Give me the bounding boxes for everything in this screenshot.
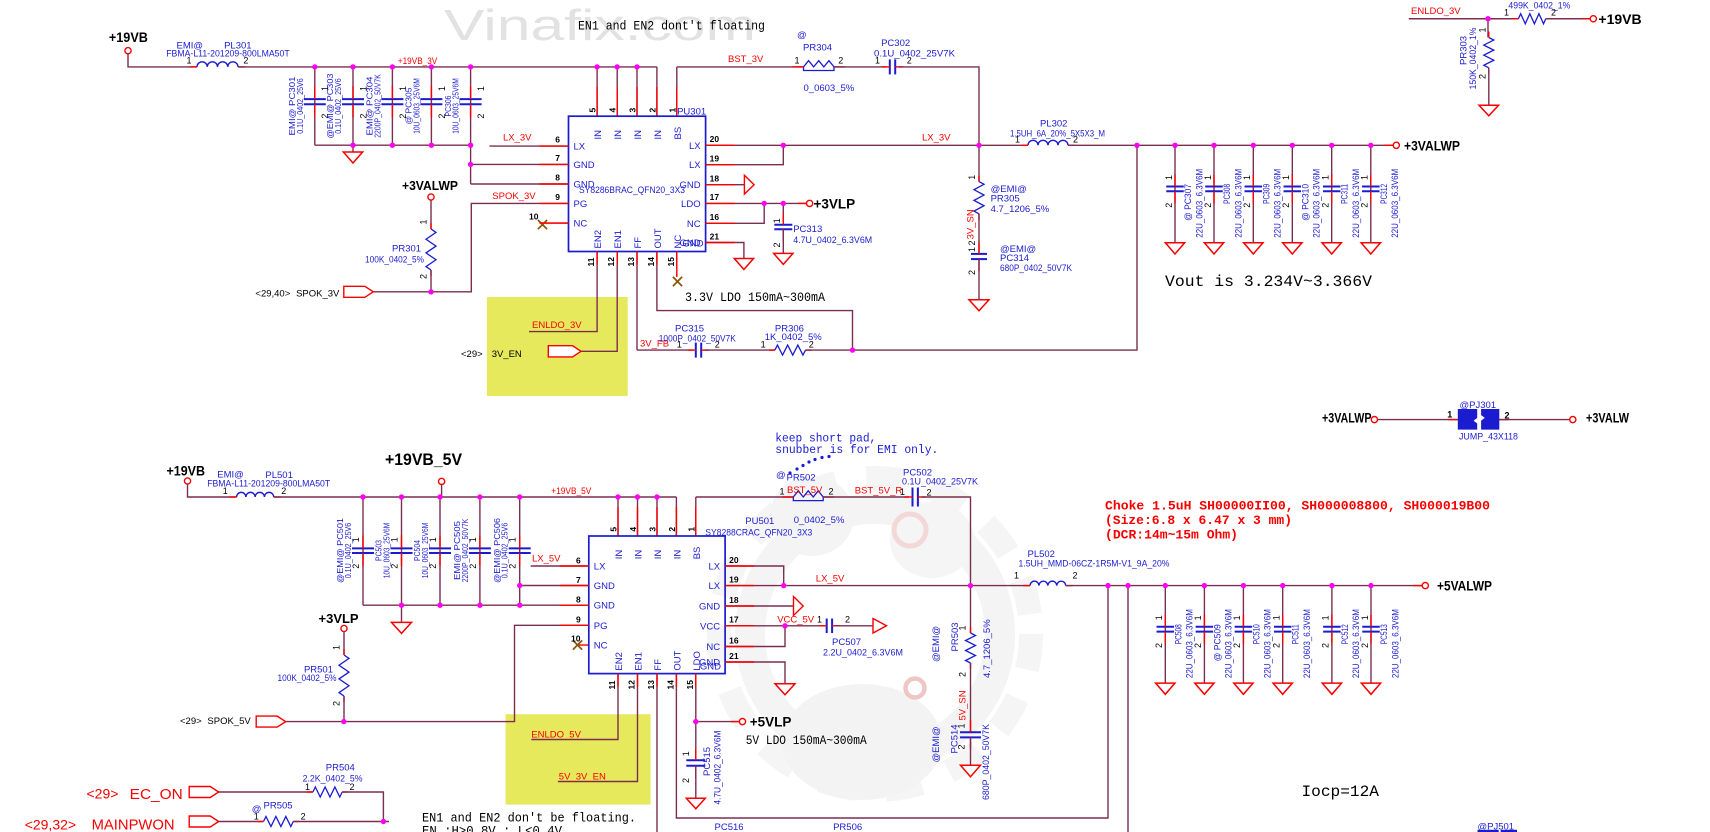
svg-text:@ PC307: @ PC307 xyxy=(1183,184,1194,221)
svg-text:0.1U_0402_25V7K: 0.1U_0402_25V7K xyxy=(874,48,956,59)
svg-text:+3VLP: +3VLP xyxy=(814,197,856,212)
svg-text:EN1 and EN2 dont't floating: EN1 and EN2 dont't floating xyxy=(578,20,765,34)
svg-text:17: 17 xyxy=(729,615,739,625)
svg-text:2: 2 xyxy=(1242,203,1252,208)
svg-text:0.1U_0402_25V6: 0.1U_0402_25V6 xyxy=(500,522,510,578)
svg-text:(DCR:14m~15m Ohm): (DCR:14m~15m Ohm) xyxy=(1105,528,1238,543)
svg-text:21: 21 xyxy=(710,231,720,241)
svg-text:3V_EN: 3V_EN xyxy=(492,349,522,360)
svg-text:SY8288CRAC_QFN20_3X3: SY8288CRAC_QFN20_3X3 xyxy=(705,527,812,538)
svg-text:2: 2 xyxy=(476,114,486,119)
svg-text:2: 2 xyxy=(1164,203,1174,208)
svg-text:LX: LX xyxy=(689,160,701,171)
svg-text:BS: BS xyxy=(692,547,703,560)
svg-text:18: 18 xyxy=(729,595,739,605)
svg-text:4.7_1206_5%: 4.7_1206_5% xyxy=(982,619,993,678)
svg-text:1: 1 xyxy=(1193,615,1203,620)
svg-text:1: 1 xyxy=(389,537,399,542)
svg-text:2: 2 xyxy=(301,811,306,821)
svg-text:1: 1 xyxy=(332,645,342,650)
svg-text:PC512: PC512 xyxy=(1340,624,1351,644)
svg-text:2: 2 xyxy=(957,672,967,677)
svg-text:20: 20 xyxy=(729,555,739,565)
svg-text:100K_0402_5%: 100K_0402_5% xyxy=(278,673,337,684)
svg-text:1: 1 xyxy=(875,55,880,65)
svg-text:PG: PG xyxy=(574,199,588,210)
svg-text:1: 1 xyxy=(1321,615,1331,620)
svg-text:2: 2 xyxy=(967,270,977,275)
svg-text:2: 2 xyxy=(681,778,691,783)
svg-text:13: 13 xyxy=(646,680,656,690)
svg-text:1: 1 xyxy=(1015,135,1020,145)
svg-text:VCC_5V: VCC_5V xyxy=(777,615,815,626)
svg-text:IN: IN xyxy=(653,550,664,560)
svg-text:PC312: PC312 xyxy=(1379,184,1390,204)
svg-text:2: 2 xyxy=(468,564,478,569)
svg-text:19: 19 xyxy=(710,154,720,164)
svg-text:EN2: EN2 xyxy=(593,230,604,248)
svg-text:1: 1 xyxy=(428,537,438,542)
svg-text:1: 1 xyxy=(761,339,766,349)
svg-text:@EMI@: @EMI@ xyxy=(931,726,942,762)
svg-text:21: 21 xyxy=(729,651,739,661)
svg-text:5: 5 xyxy=(588,108,598,113)
svg-text:ENLDO_3V: ENLDO_3V xyxy=(1411,6,1461,17)
svg-text:PC308: PC308 xyxy=(1222,184,1233,204)
svg-text:10U_0603_25V6M: 10U_0603_25V6M xyxy=(451,78,461,134)
svg-text:@: @ xyxy=(776,470,786,481)
svg-text:3: 3 xyxy=(628,108,638,113)
svg-text:+5VALWP: +5VALWP xyxy=(1437,579,1492,594)
svg-text:2: 2 xyxy=(350,782,355,792)
svg-text:0.1U_0402_25V6: 0.1U_0402_25V6 xyxy=(295,78,305,134)
svg-text:+19VB: +19VB xyxy=(109,29,148,45)
svg-text:1: 1 xyxy=(187,56,192,66)
svg-text:22U_0603_6.3V6M: 22U_0603_6.3V6M xyxy=(1302,609,1313,678)
svg-text:@: @ xyxy=(797,30,807,41)
svg-text:0_0402_5%: 0_0402_5% xyxy=(794,515,845,526)
svg-text:LX: LX xyxy=(708,581,720,592)
svg-text:1: 1 xyxy=(817,615,822,625)
svg-text:LX_3V: LX_3V xyxy=(922,133,951,144)
svg-text:IN: IN xyxy=(614,550,625,560)
svg-text:IN: IN xyxy=(633,130,644,140)
svg-text:PC516: PC516 xyxy=(715,822,744,832)
svg-text:0.1U_0402_25V6: 0.1U_0402_25V6 xyxy=(343,522,353,578)
svg-text:18: 18 xyxy=(710,174,720,184)
svg-text:LX: LX xyxy=(689,141,701,152)
svg-text:NC: NC xyxy=(687,219,701,230)
svg-text:4: 4 xyxy=(628,527,638,532)
svg-text:10: 10 xyxy=(571,634,581,644)
svg-text:1: 1 xyxy=(1360,615,1370,620)
svg-text:PU301: PU301 xyxy=(677,106,706,117)
svg-text:1: 1 xyxy=(351,537,361,542)
svg-text:150K_0402_1%: 150K_0402_1% xyxy=(1468,27,1479,90)
svg-text:(Size:6.8 x 6.47 x 3 mm): (Size:6.8 x 6.47 x 3 mm) xyxy=(1105,513,1292,528)
svg-text:3V_SN: 3V_SN xyxy=(966,209,977,239)
svg-text:IN: IN xyxy=(613,130,624,140)
svg-text:2: 2 xyxy=(508,564,518,569)
svg-text:11: 11 xyxy=(607,680,617,689)
svg-text:2: 2 xyxy=(1193,643,1203,648)
svg-text:2: 2 xyxy=(1073,135,1078,145)
svg-text:GND: GND xyxy=(700,662,721,673)
svg-text:2: 2 xyxy=(1360,203,1370,208)
svg-text:<29>: <29> xyxy=(461,349,483,360)
svg-text:@PJ301: @PJ301 xyxy=(1460,400,1497,411)
svg-text:2: 2 xyxy=(1203,203,1213,208)
svg-text:IN: IN xyxy=(653,130,664,140)
svg-text:2: 2 xyxy=(389,564,399,569)
svg-text:2: 2 xyxy=(1073,571,1078,581)
svg-text:PR304: PR304 xyxy=(803,43,832,54)
svg-text:7: 7 xyxy=(576,575,581,585)
svg-text:2: 2 xyxy=(1154,643,1164,648)
svg-text:5: 5 xyxy=(609,527,619,532)
svg-text:@EMI@: @EMI@ xyxy=(931,626,942,662)
svg-text:ENLDO_5V: ENLDO_5V xyxy=(531,729,581,740)
svg-text:2: 2 xyxy=(332,701,342,706)
svg-text:12: 12 xyxy=(627,680,637,690)
svg-text:LX: LX xyxy=(594,562,606,573)
svg-text:LX_5V: LX_5V xyxy=(816,574,845,585)
svg-text:1: 1 xyxy=(419,219,429,224)
svg-text:EN1 and EN2 don't be floating.: EN1 and EN2 don't be floating. xyxy=(422,812,636,826)
svg-text:2: 2 xyxy=(1477,74,1487,79)
svg-text:<29>: <29> xyxy=(180,716,202,727)
svg-text:EN1: EN1 xyxy=(613,230,624,248)
svg-text:1: 1 xyxy=(772,218,782,223)
svg-text:LX: LX xyxy=(574,142,586,153)
svg-text:2: 2 xyxy=(809,339,814,349)
svg-text:1: 1 xyxy=(1242,175,1252,180)
svg-text:1: 1 xyxy=(1203,175,1213,180)
svg-text:15: 15 xyxy=(685,680,695,690)
svg-text:+3VALWP: +3VALWP xyxy=(1322,411,1372,426)
svg-text:2: 2 xyxy=(1360,643,1370,648)
svg-text:+3VALWP: +3VALWP xyxy=(1404,139,1460,154)
svg-text:<29,40>: <29,40> xyxy=(255,289,290,300)
svg-text:9: 9 xyxy=(555,192,560,202)
svg-text:BST_3V: BST_3V xyxy=(728,54,764,65)
svg-text:0_0603_5%: 0_0603_5% xyxy=(804,83,855,94)
svg-text:BS: BS xyxy=(673,127,684,140)
svg-text:1: 1 xyxy=(1164,175,1174,180)
svg-text:5V LDO 150mA~300mA: 5V LDO 150mA~300mA xyxy=(746,734,867,748)
svg-text:3.3V LDO 150mA~300mA: 3.3V LDO 150mA~300mA xyxy=(685,291,825,305)
svg-text:1000P_0402_50V7K: 1000P_0402_50V7K xyxy=(659,333,737,344)
svg-text:PR505: PR505 xyxy=(264,801,293,812)
svg-text:ENLDO_3V: ENLDO_3V xyxy=(532,320,582,331)
svg-text:PC510: PC510 xyxy=(1251,624,1262,644)
svg-text:SY8286BRAC_QFN20_3X3: SY8286BRAC_QFN20_3X3 xyxy=(579,185,685,196)
svg-text:JUMP_43X118: JUMP_43X118 xyxy=(1459,432,1518,443)
svg-text:100K_0402_5%: 100K_0402_5% xyxy=(365,255,424,266)
svg-text:1: 1 xyxy=(1014,571,1019,581)
svg-text:LX_5V: LX_5V xyxy=(532,554,561,565)
svg-text:1: 1 xyxy=(1504,8,1509,18)
svg-text:2200P_0402_50V7K: 2200P_0402_50V7K xyxy=(460,518,470,582)
svg-text:SPOK_3V: SPOK_3V xyxy=(296,289,340,300)
svg-text:2: 2 xyxy=(281,486,286,496)
svg-text:GND: GND xyxy=(699,602,720,613)
svg-text:1: 1 xyxy=(967,247,977,252)
svg-text:2: 2 xyxy=(1321,643,1331,648)
svg-text:+3VALW: +3VALW xyxy=(1586,411,1629,426)
svg-text:GND: GND xyxy=(574,160,595,171)
svg-text:1.5UH_6A_20%_5X5X3_M: 1.5UH_6A_20%_5X5X3_M xyxy=(1010,128,1105,139)
svg-text:LDO: LDO xyxy=(681,199,701,210)
svg-text:2: 2 xyxy=(838,55,843,65)
svg-text:SPOK_3V: SPOK_3V xyxy=(492,191,536,202)
svg-text:9: 9 xyxy=(576,615,581,625)
svg-text:MAINPWON: MAINPWON xyxy=(92,817,175,832)
svg-text:5V_SN: 5V_SN xyxy=(958,690,969,720)
svg-text:2: 2 xyxy=(667,527,677,532)
svg-text:1: 1 xyxy=(223,486,228,496)
svg-text:22U_0603_6.3V6M: 22U_0603_6.3V6M xyxy=(1390,169,1401,238)
svg-text:Vout is 3.234V~3.366V: Vout is 3.234V~3.366V xyxy=(1165,273,1373,291)
svg-text:PC508: PC508 xyxy=(1173,624,1184,644)
svg-text:17: 17 xyxy=(710,192,720,202)
svg-text:2: 2 xyxy=(927,488,932,498)
svg-text:PC507: PC507 xyxy=(832,637,861,648)
svg-text:PC515: PC515 xyxy=(702,747,713,776)
svg-text:2: 2 xyxy=(967,240,977,245)
svg-text:1: 1 xyxy=(1477,27,1487,32)
svg-text:1: 1 xyxy=(681,751,691,756)
svg-text:680P_0402_50V7K: 680P_0402_50V7K xyxy=(981,723,992,800)
svg-text:6: 6 xyxy=(576,555,581,565)
svg-text:1: 1 xyxy=(686,527,696,532)
svg-text:EC_ON: EC_ON xyxy=(130,786,183,803)
svg-text:PC309: PC309 xyxy=(1261,184,1272,204)
svg-text:LX: LX xyxy=(708,562,720,573)
svg-text:20: 20 xyxy=(710,134,720,144)
svg-text:2: 2 xyxy=(351,564,361,569)
svg-text:+19VB_5V: +19VB_5V xyxy=(551,486,592,497)
svg-text:2200P_0402_50V7K: 2200P_0402_50V7K xyxy=(372,74,382,138)
svg-text:OUT: OUT xyxy=(653,228,664,248)
svg-text:3: 3 xyxy=(648,527,658,532)
svg-text:+19VB: +19VB xyxy=(167,462,206,478)
svg-text:8: 8 xyxy=(555,173,560,183)
svg-text:2: 2 xyxy=(419,274,429,279)
svg-text:PU501: PU501 xyxy=(745,516,774,527)
svg-text:FF: FF xyxy=(653,659,664,671)
svg-text:2: 2 xyxy=(1272,643,1282,648)
svg-text:@ PC310: @ PC310 xyxy=(1300,184,1311,221)
svg-text:IN: IN xyxy=(593,130,604,140)
svg-text:10: 10 xyxy=(529,212,539,222)
svg-text:5V_3V_EN: 5V_3V_EN xyxy=(559,772,606,783)
svg-text:1: 1 xyxy=(677,339,682,349)
svg-text:GND: GND xyxy=(594,581,615,592)
svg-text:GND: GND xyxy=(679,180,700,191)
svg-text:2: 2 xyxy=(907,55,912,65)
svg-text:2: 2 xyxy=(428,564,438,569)
svg-text:PR504: PR504 xyxy=(326,763,355,774)
svg-text:GND: GND xyxy=(574,180,595,191)
svg-text:+19VB_5V: +19VB_5V xyxy=(385,450,463,469)
svg-text:2: 2 xyxy=(1551,8,1556,18)
svg-text:GND: GND xyxy=(594,601,615,612)
svg-text:4.7U_0402_6.3V6M: 4.7U_0402_6.3V6M xyxy=(713,731,724,805)
svg-text:BST_5V: BST_5V xyxy=(787,485,823,496)
svg-text:PG: PG xyxy=(594,621,608,632)
svg-text:NC: NC xyxy=(706,642,720,653)
svg-text:2: 2 xyxy=(829,487,834,497)
svg-text:+19VB: +19VB xyxy=(1598,11,1641,27)
svg-text:PR506: PR506 xyxy=(833,822,862,832)
svg-text:499K_0402_1%: 499K_0402_1% xyxy=(1508,1,1571,12)
svg-text:IN: IN xyxy=(672,550,683,560)
svg-text:2: 2 xyxy=(1505,411,1510,421)
svg-text:1: 1 xyxy=(1360,175,1370,180)
svg-text:LX_3V: LX_3V xyxy=(503,133,532,144)
svg-text:6: 6 xyxy=(555,135,560,145)
svg-text:4.7_1206_5%: 4.7_1206_5% xyxy=(991,204,1050,215)
svg-text:1: 1 xyxy=(1154,615,1164,620)
svg-text:1: 1 xyxy=(1232,615,1242,620)
svg-text:2: 2 xyxy=(1232,643,1242,648)
svg-text:1: 1 xyxy=(508,537,518,542)
svg-text:1: 1 xyxy=(900,487,905,497)
svg-text:<29>: <29> xyxy=(87,786,119,802)
svg-text:BST_5V_R: BST_5V_R xyxy=(855,486,903,497)
svg-text:NC: NC xyxy=(594,641,608,652)
svg-text:22U_0603_6.3V6M: 22U_0603_6.3V6M xyxy=(1390,609,1401,678)
svg-text:1: 1 xyxy=(1321,175,1331,180)
svg-text:PC513: PC513 xyxy=(1379,624,1390,644)
svg-text:1: 1 xyxy=(780,487,785,497)
svg-text:Choke 1.5uH SH00000II00, SH00: Choke 1.5uH SH00000II00, SH000008800, SH… xyxy=(1105,499,1490,514)
svg-text:PC313: PC313 xyxy=(793,224,822,235)
svg-text:2.2U_0402_6.3V6M: 2.2U_0402_6.3V6M xyxy=(823,648,903,659)
svg-text:680P_0402_50V7K: 680P_0402_50V7K xyxy=(1000,263,1073,274)
svg-text:4.7U_0402_6.3V6M: 4.7U_0402_6.3V6M xyxy=(793,235,872,246)
svg-text:+3VALWP: +3VALWP xyxy=(402,178,458,193)
svg-text:12: 12 xyxy=(606,257,616,267)
svg-text:1: 1 xyxy=(957,625,967,630)
svg-text:OUT: OUT xyxy=(672,650,683,670)
svg-text:1: 1 xyxy=(1447,410,1452,420)
svg-text:1: 1 xyxy=(254,811,259,821)
svg-text:0.1U_0402_25V6: 0.1U_0402_25V6 xyxy=(333,78,343,134)
svg-text:PR305: PR305 xyxy=(991,194,1020,205)
svg-text:13: 13 xyxy=(626,257,636,267)
svg-text:0.1U_0402_25V7K: 0.1U_0402_25V7K xyxy=(902,477,979,488)
svg-text:GND: GND xyxy=(682,238,703,249)
svg-text:2: 2 xyxy=(1321,203,1331,208)
svg-text:EN1: EN1 xyxy=(634,652,645,670)
svg-text:14: 14 xyxy=(665,680,675,690)
svg-text:@ PC509: @ PC509 xyxy=(1212,624,1223,661)
svg-text:11: 11 xyxy=(586,257,596,266)
svg-text:2: 2 xyxy=(1281,203,1291,208)
svg-text:NC: NC xyxy=(574,219,588,230)
svg-text:SPOK_5V: SPOK_5V xyxy=(207,716,251,727)
svg-text:1: 1 xyxy=(1272,615,1282,620)
svg-text:IN: IN xyxy=(634,550,645,560)
svg-text:8: 8 xyxy=(576,595,581,605)
svg-text:14: 14 xyxy=(646,257,656,267)
svg-text:19: 19 xyxy=(729,574,739,584)
svg-text:<29,32>: <29,32> xyxy=(25,817,76,832)
svg-text:16: 16 xyxy=(729,635,739,645)
svg-text:Iocp=12A: Iocp=12A xyxy=(1302,783,1380,801)
svg-text:PR301: PR301 xyxy=(392,244,421,255)
svg-text:16: 16 xyxy=(710,212,720,222)
svg-text:PC511: PC511 xyxy=(1291,624,1302,644)
svg-text:2: 2 xyxy=(647,108,657,113)
svg-text:1: 1 xyxy=(468,537,478,542)
svg-text:1: 1 xyxy=(476,86,486,91)
svg-text:2: 2 xyxy=(957,744,967,749)
svg-text:EN :H>0.8V ; L<0.4V: EN :H>0.8V ; L<0.4V xyxy=(422,825,562,832)
svg-text:PC311: PC311 xyxy=(1340,184,1351,204)
svg-text:FBMA-L11-201209-800LMA50T: FBMA-L11-201209-800LMA50T xyxy=(166,49,290,60)
svg-text:15: 15 xyxy=(666,257,676,267)
svg-text:snubber is for EMI only.: snubber is for EMI only. xyxy=(775,443,938,457)
svg-text:1: 1 xyxy=(967,175,977,180)
svg-text:2: 2 xyxy=(715,339,720,349)
svg-text:10U_0603_25V6M: 10U_0603_25V6M xyxy=(411,78,421,134)
svg-text:2: 2 xyxy=(845,615,850,625)
svg-text:1: 1 xyxy=(305,782,310,792)
svg-text:1: 1 xyxy=(1281,175,1291,180)
svg-text:EN2: EN2 xyxy=(614,652,625,670)
svg-text:1: 1 xyxy=(795,55,800,65)
svg-text:7: 7 xyxy=(555,153,560,163)
svg-text:+5VLP: +5VLP xyxy=(750,715,792,730)
svg-text:2: 2 xyxy=(243,56,248,66)
svg-text:4: 4 xyxy=(608,108,618,113)
svg-text:1: 1 xyxy=(437,86,447,91)
svg-text:1: 1 xyxy=(667,108,677,113)
svg-text:10U_0603_25V6M: 10U_0603_25V6M xyxy=(382,523,392,579)
svg-text:+3VLP: +3VLP xyxy=(319,611,359,626)
svg-text:VCC: VCC xyxy=(700,621,720,632)
svg-text:2: 2 xyxy=(772,242,782,247)
svg-text:1.5UH_MMD-06CZ-1R5M-V1_9A_20%: 1.5UH_MMD-06CZ-1R5M-V1_9A_20% xyxy=(1019,559,1170,570)
svg-text:FF: FF xyxy=(633,237,644,249)
svg-text:10U_0603_25V6M: 10U_0603_25V6M xyxy=(420,523,430,579)
svg-text:1: 1 xyxy=(957,723,967,728)
